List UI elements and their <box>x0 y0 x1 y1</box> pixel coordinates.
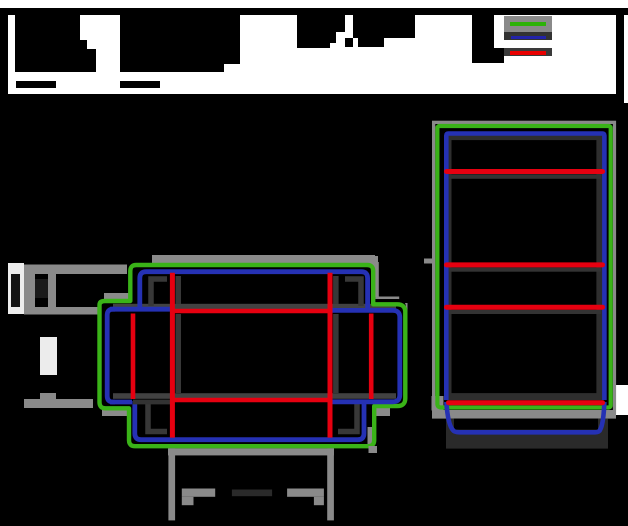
left icon cluster 1 gray column b <box>48 274 56 314</box>
tall box gray widening bottom-left <box>432 396 444 411</box>
dieline dark corner bracket bottom tab left <box>148 404 167 432</box>
dieline dark shadow band above top fold <box>113 304 396 310</box>
dieline blue bottom fold left segment <box>110 400 132 405</box>
header glyph blob A step 2 <box>87 49 96 72</box>
tall box flap interior black <box>454 419 598 430</box>
dieline dark corner bracket bottom tab right <box>338 404 357 432</box>
header glyph blob A step 1 <box>80 40 87 72</box>
legend green line <box>510 22 546 27</box>
dieline red short vertical left <box>131 314 136 400</box>
tall box black interior <box>435 124 612 410</box>
left icon cluster 1 dark notch <box>35 279 48 298</box>
dieline blue top tab <box>140 272 368 312</box>
tray gray outline top <box>168 448 334 455</box>
header glyph blob A <box>15 15 80 72</box>
tall box blue flap <box>446 402 604 432</box>
top white strip <box>0 0 628 8</box>
dieline red top fold line <box>172 309 331 314</box>
dieline gray column right of top tab <box>375 262 379 297</box>
header glyph blob C lower <box>297 32 330 48</box>
dieline blue bottom tab <box>135 401 364 440</box>
tall box dark band under red 2 <box>449 268 601 272</box>
tray gray outline left <box>168 448 175 520</box>
tall box gray outer rect <box>434 122 615 412</box>
header black vertical bar <box>616 8 624 103</box>
header glyph blob C square <box>345 38 353 47</box>
dieline gray shadow right of bottom tab <box>376 408 390 416</box>
tall box dark band under red 1 <box>449 174 601 179</box>
tall box dark band under red 3 <box>449 310 601 314</box>
dieline red short vertical right <box>369 314 374 400</box>
header underline bar 2 <box>120 81 160 88</box>
dieline dark corner bracket top tab left <box>151 279 167 306</box>
dieline blue band left edge <box>107 309 115 402</box>
header glyph blob E step <box>494 48 504 63</box>
left icon white square 2 <box>40 337 57 375</box>
dieline dark corner bracket top tab right <box>345 279 361 306</box>
legend gray block <box>504 16 552 32</box>
header glyph blob C <box>297 15 345 32</box>
tray dashed line left dash <box>182 489 215 497</box>
tall box gray stub left <box>424 259 435 264</box>
dieline gray shadow below band bottom left <box>102 410 130 416</box>
header white panel <box>8 15 628 94</box>
tall box green left edge over gray widening <box>437 394 445 408</box>
tray dashed line right dash <box>287 489 324 497</box>
dieline green outline cross <box>100 265 406 446</box>
header glyph blob C lower2 <box>330 32 336 43</box>
legend dark block 2 <box>504 48 552 56</box>
left icon cluster 1 gray column a <box>24 274 35 314</box>
header glyph blob B <box>120 15 224 72</box>
tray right step <box>314 497 324 505</box>
dieline dark column beside red vertical 1 upper <box>176 276 182 304</box>
tall box flap dark fill <box>446 419 608 449</box>
header glyph blob B step <box>224 15 240 64</box>
header glyph blob E <box>472 14 494 63</box>
dieline red bottom fold line <box>174 398 331 403</box>
white notch right of tall box <box>613 385 628 415</box>
left icon gray line 3 <box>24 399 93 408</box>
tall box green rect <box>437 126 610 408</box>
tray dashed line middle dark dash <box>232 490 272 497</box>
dieline gray shadow above top tab <box>152 255 375 264</box>
tray left step <box>182 497 194 505</box>
tall box red line 2 <box>447 262 603 267</box>
dieline red long vertical 2 <box>328 273 333 438</box>
legend dark block 1 <box>504 32 552 40</box>
header right white sliver <box>624 15 628 103</box>
dieline black cross fill <box>99 263 406 448</box>
left icon cluster 1 bright block <box>8 263 24 314</box>
tall box red line 1 <box>447 169 603 174</box>
legend red line <box>510 51 546 55</box>
tray gray outline right <box>327 448 334 520</box>
header underline bar 1 <box>16 81 56 88</box>
dieline gray shadow below bottom tab <box>168 448 334 455</box>
dieline gray shadow left of band top <box>104 293 150 302</box>
gray stub below bottom tab right corner <box>369 446 378 453</box>
dieline dark gap bottom fold <box>133 400 172 405</box>
tall box dark inner frame <box>448 137 600 397</box>
header glyph blob D <box>353 15 415 38</box>
left icon cluster 1 dark inner <box>11 274 20 307</box>
dieline red long vertical 1 <box>170 273 175 438</box>
tall box blue rect with flap <box>446 134 604 401</box>
tall box red line 3 <box>447 305 603 310</box>
tall box gray bottom thick <box>432 410 616 419</box>
dieline dark column beside red vertical 2 upper <box>333 276 339 304</box>
dieline dark shadow band above bottom fold <box>113 393 396 399</box>
dieline gray shadow top right corner <box>352 256 378 268</box>
header glyph blob D lower <box>358 38 384 47</box>
left icon gray line 1 <box>24 265 127 275</box>
dieline dark column beside red vertical 1 lower <box>176 314 182 393</box>
dieline dark column beside red vertical 2 lower <box>333 314 339 393</box>
left icon gray line 3 step <box>40 393 56 400</box>
dieline gray at bottom tab right corner <box>368 427 373 446</box>
dieline gray outside band corner <box>399 303 408 316</box>
dieline blue top fold left segment <box>110 307 170 312</box>
left icon gray line 2 <box>24 307 110 315</box>
dieline gray patch right wing <box>375 297 399 304</box>
dieline blue band right edge with fold segments <box>331 310 400 401</box>
tall box red line 4 <box>449 400 603 405</box>
legend blue line <box>511 36 546 40</box>
